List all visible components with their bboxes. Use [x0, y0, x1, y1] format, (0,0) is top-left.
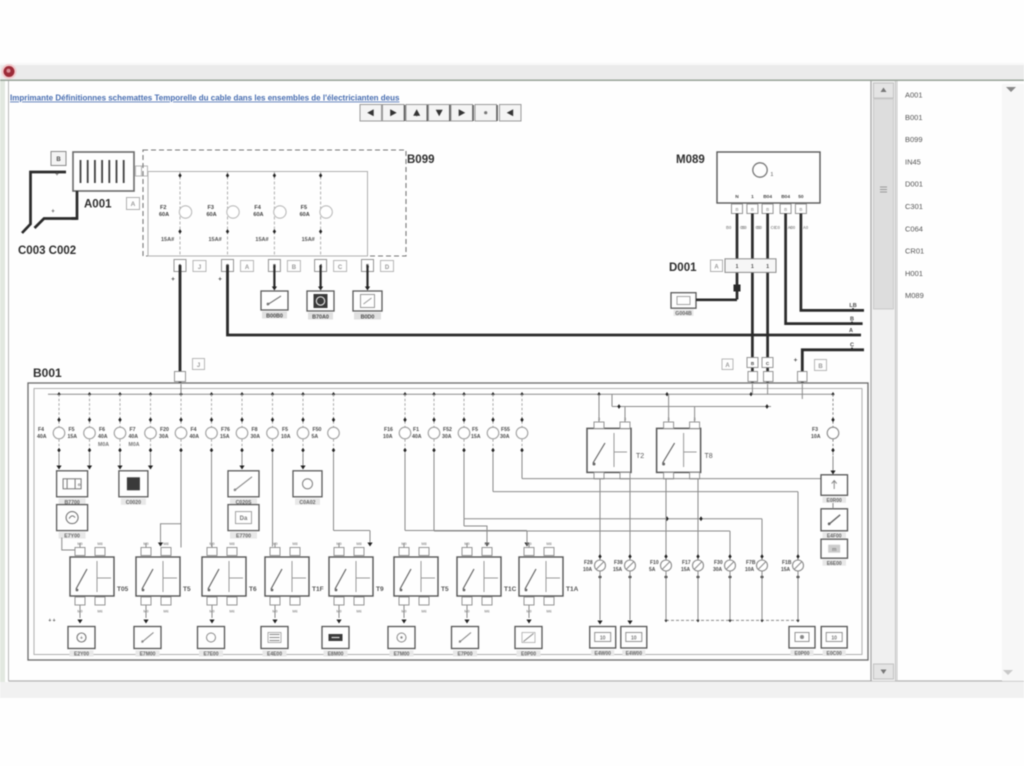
svg-text:15A#: 15A# — [302, 237, 315, 243]
svg-text:F5: F5 — [301, 205, 307, 211]
svg-text:M8: M8 — [546, 542, 551, 546]
svg-text:B001: B001 — [33, 366, 62, 380]
svg-text:T05: T05 — [117, 586, 129, 593]
svg-text:C0A02: C0A02 — [299, 500, 315, 506]
svg-text:5A: 5A — [649, 567, 656, 573]
svg-text:F10: F10 — [650, 560, 659, 566]
svg-text:M6: M6 — [163, 610, 168, 614]
svg-text:E7Y00: E7Y00 — [64, 534, 80, 540]
svg-text:F3: F3 — [812, 427, 818, 433]
svg-text:M0: M0 — [336, 542, 341, 546]
svg-text:F52: F52 — [443, 427, 452, 433]
svg-text:B0: B0 — [741, 225, 747, 230]
svg-text:F55: F55 — [501, 427, 510, 433]
svg-text:A: A — [714, 265, 719, 271]
svg-text:B: B — [784, 207, 787, 212]
svg-text:1: 1 — [751, 264, 754, 270]
svg-text:T6: T6 — [249, 586, 257, 593]
svg-text:F6: F6 — [99, 427, 105, 433]
svg-text:F1B: F1B — [782, 560, 792, 566]
svg-text:M089: M089 — [905, 291, 924, 300]
svg-text:M8: M8 — [421, 542, 426, 546]
svg-text:A: A — [131, 201, 136, 208]
svg-text:M6: M6 — [356, 610, 361, 614]
svg-text:D: D — [385, 265, 390, 271]
svg-text:M089: M089 — [676, 154, 705, 166]
svg-text:B: B — [766, 207, 769, 212]
svg-text:F4: F4 — [191, 427, 197, 433]
svg-text:M0: M0 — [77, 542, 82, 546]
svg-text:1: 1 — [736, 264, 739, 270]
svg-text:60A: 60A — [253, 212, 263, 218]
svg-text:+: + — [51, 209, 55, 215]
svg-text:F2: F2 — [160, 205, 166, 211]
svg-text:M8: M8 — [97, 542, 102, 546]
svg-text:+: + — [171, 276, 175, 283]
svg-text:10: 10 — [831, 636, 837, 642]
svg-text:M0: M0 — [464, 542, 469, 546]
svg-text:M0A: M0A — [129, 442, 140, 448]
svg-text:15A#: 15A# — [161, 237, 174, 243]
svg-text:M0: M0 — [401, 542, 406, 546]
svg-text:B: B — [292, 265, 297, 271]
svg-text:10A: 10A — [583, 567, 593, 573]
svg-text:B04: B04 — [781, 194, 790, 200]
svg-text:A: A — [849, 328, 853, 334]
svg-text:F16: F16 — [384, 427, 393, 433]
svg-text:T8: T8 — [705, 453, 713, 460]
svg-text:F76: F76 — [221, 427, 230, 433]
svg-text:M0: M0 — [272, 542, 277, 546]
svg-text:E7P00: E7P00 — [457, 652, 472, 658]
svg-text:M0A: M0A — [98, 442, 109, 448]
svg-text:Imprimante Définitionnes schem: Imprimante Définitionnes schemattes Temp… — [10, 94, 400, 103]
svg-text:40A: 40A — [190, 434, 200, 440]
svg-text:C0: C0 — [790, 225, 796, 230]
svg-text:E0P00: E0P00 — [521, 652, 536, 658]
svg-text:F20: F20 — [160, 427, 169, 433]
svg-text:30A: 30A — [500, 434, 510, 440]
svg-text:F4: F4 — [254, 205, 261, 211]
svg-text:M8: M8 — [163, 542, 168, 546]
svg-text:1: 1 — [751, 194, 754, 200]
svg-text:C064: C064 — [905, 224, 923, 233]
svg-text:B099: B099 — [905, 135, 923, 144]
svg-text:B: B — [818, 364, 823, 370]
svg-text:T2: T2 — [636, 453, 644, 460]
svg-text:F7B: F7B — [746, 560, 756, 566]
svg-text:15A#: 15A# — [255, 237, 268, 243]
svg-text:15A: 15A — [613, 567, 623, 573]
svg-text:30A: 30A — [159, 434, 169, 440]
svg-text:M6: M6 — [292, 610, 297, 614]
svg-text:10: 10 — [631, 636, 637, 642]
svg-text:E8M00: E8M00 — [328, 652, 344, 658]
svg-text:C: C — [338, 265, 343, 271]
svg-text:F8: F8 — [252, 427, 258, 433]
svg-text:60A: 60A — [300, 212, 310, 218]
svg-text:E0P00: E0P00 — [794, 651, 809, 657]
svg-text:C0: C0 — [775, 225, 781, 230]
svg-text:40A: 40A — [412, 434, 422, 440]
svg-text:1: 1 — [771, 172, 774, 178]
svg-text:15A: 15A — [681, 567, 691, 573]
svg-text:E6E00: E6E00 — [827, 561, 842, 567]
svg-text:10: 10 — [600, 636, 606, 642]
svg-text:B0D0: B0D0 — [361, 315, 375, 321]
svg-text:A: A — [245, 265, 250, 271]
svg-text:m: m — [832, 547, 837, 553]
svg-text:60A: 60A — [207, 212, 217, 218]
svg-text:F28: F28 — [584, 560, 593, 566]
svg-text:+ +: + + — [48, 618, 55, 624]
svg-text:1: 1 — [766, 264, 769, 270]
svg-text:E4E00: E4E00 — [267, 652, 282, 658]
svg-text:M6: M6 — [546, 610, 551, 614]
svg-text:J: J — [198, 265, 201, 271]
svg-text:15A: 15A — [471, 434, 481, 440]
svg-text:M0: M0 — [143, 542, 148, 546]
svg-text:F7: F7 — [130, 427, 136, 433]
svg-text:+: + — [794, 357, 798, 364]
svg-text:Da: Da — [240, 516, 248, 522]
svg-text:10A: 10A — [811, 434, 821, 440]
svg-text:M6: M6 — [421, 610, 426, 614]
svg-text:B0: B0 — [757, 225, 763, 230]
svg-text:+: + — [80, 636, 83, 642]
svg-text:15A: 15A — [220, 434, 230, 440]
svg-text:B00B0: B00B0 — [266, 314, 283, 320]
svg-text:F1: F1 — [413, 427, 419, 433]
svg-text:15A: 15A — [781, 567, 791, 573]
svg-text:T1F: T1F — [312, 586, 324, 593]
svg-text:F17: F17 — [682, 560, 691, 566]
svg-text:D001: D001 — [669, 262, 697, 274]
svg-text:M8: M8 — [292, 542, 297, 546]
svg-text:M6: M6 — [484, 610, 489, 614]
svg-text:15A: 15A — [68, 434, 78, 440]
svg-text:A001: A001 — [905, 91, 923, 100]
svg-text:B: B — [735, 207, 738, 212]
svg-text:F4: F4 — [38, 427, 44, 433]
svg-text:F50: F50 — [313, 427, 322, 433]
svg-text:IN45: IN45 — [905, 157, 921, 166]
svg-text:M0: M0 — [209, 542, 214, 546]
svg-text:F3: F3 — [208, 205, 214, 211]
svg-text:B001: B001 — [905, 113, 923, 122]
svg-text:T9: T9 — [376, 586, 384, 593]
svg-text:C003 C002: C003 C002 — [18, 245, 76, 257]
svg-text:60A: 60A — [159, 212, 169, 218]
svg-text:E0R00: E0R00 — [827, 498, 843, 504]
svg-text:B: B — [751, 207, 754, 212]
svg-text:M8: M8 — [229, 542, 234, 546]
svg-text:M6: M6 — [97, 610, 102, 614]
svg-text:M8: M8 — [356, 542, 361, 546]
svg-text:50: 50 — [798, 194, 804, 200]
svg-text:F5: F5 — [69, 427, 75, 433]
svg-text:10A: 10A — [281, 434, 291, 440]
svg-text:C0020: C0020 — [126, 500, 141, 506]
svg-text:T5: T5 — [183, 586, 191, 593]
svg-text:E4W00: E4W00 — [626, 651, 643, 657]
svg-text:H001: H001 — [905, 269, 923, 278]
svg-text:40A: 40A — [98, 434, 108, 440]
svg-text:T1C: T1C — [504, 586, 517, 593]
svg-text:B04: B04 — [763, 194, 772, 200]
svg-text:+: + — [55, 172, 59, 178]
svg-text:30A: 30A — [442, 434, 452, 440]
svg-text:40A: 40A — [129, 434, 139, 440]
svg-text:E7M00: E7M00 — [140, 652, 156, 658]
svg-text:N: N — [735, 194, 739, 200]
svg-text:F5: F5 — [472, 427, 478, 433]
svg-text:M0: M0 — [526, 542, 531, 546]
svg-text:J: J — [197, 363, 200, 369]
svg-text:40A: 40A — [37, 434, 47, 440]
svg-text:B099: B099 — [407, 154, 435, 166]
svg-text:A0: A0 — [803, 225, 809, 230]
svg-text:CR01: CR01 — [905, 247, 924, 256]
svg-text:10A: 10A — [745, 567, 755, 573]
svg-text:E4W00: E4W00 — [594, 651, 611, 657]
svg-text:M8: M8 — [484, 542, 489, 546]
svg-text:T5: T5 — [441, 586, 449, 593]
svg-text:30A: 30A — [713, 567, 723, 573]
svg-text:B: B — [799, 207, 802, 212]
svg-text:F30: F30 — [714, 560, 723, 566]
svg-text:B0: B0 — [726, 225, 732, 230]
svg-text:A: A — [725, 363, 730, 369]
svg-text:o: o — [78, 482, 81, 487]
svg-text:5A: 5A — [312, 434, 319, 440]
svg-text:E0C00: E0C00 — [827, 651, 843, 657]
svg-text:E7E00: E7E00 — [203, 652, 218, 658]
svg-text:E7M00: E7M00 — [394, 652, 410, 658]
svg-text:30A: 30A — [251, 434, 261, 440]
svg-text:15A#: 15A# — [209, 237, 222, 243]
svg-text:C301: C301 — [905, 202, 923, 211]
svg-text:F5: F5 — [282, 427, 288, 433]
svg-text:A001: A001 — [84, 199, 112, 211]
svg-text:B70A0: B70A0 — [312, 315, 329, 321]
svg-text:F38: F38 — [614, 560, 623, 566]
svg-text:T1A: T1A — [566, 586, 579, 593]
svg-text:+: + — [218, 276, 222, 283]
svg-text:B: B — [56, 157, 61, 163]
svg-text:E2Y00: E2Y00 — [74, 652, 89, 658]
svg-text:M6: M6 — [229, 610, 234, 614]
svg-text:10A: 10A — [383, 434, 393, 440]
svg-text:G004B: G004B — [675, 311, 692, 317]
svg-text:E7700: E7700 — [236, 534, 251, 540]
svg-text:D001: D001 — [905, 180, 923, 189]
